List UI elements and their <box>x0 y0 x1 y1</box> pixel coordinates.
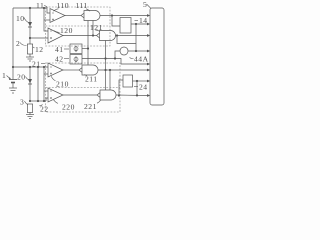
wire left rail <box>12 8 14 80</box>
node circle feed tap <box>114 57 116 59</box>
node divider mid top <box>29 37 31 39</box>
node gate121 out <box>116 34 118 36</box>
wire src42 out <box>82 59 149 65</box>
diode D10 <box>28 22 32 27</box>
wire op210 out <box>63 69 79 71</box>
resistor R3 <box>27 104 32 113</box>
wire gate121 input fork <box>97 33 100 38</box>
node merge y95 <box>136 94 138 96</box>
wire block24 branch down <box>136 81 138 95</box>
gate 221 <box>100 90 116 100</box>
wire gate221 input fork <box>97 93 100 98</box>
wire mid rail <box>13 66 48 68</box>
wire gate121 branch down <box>117 36 136 44</box>
node block14 out <box>135 23 137 25</box>
svg-text:42: 42 <box>55 55 64 64</box>
svg-text:1: 1 <box>2 71 6 80</box>
op-amp 210 <box>48 63 63 77</box>
node divider mid bottom <box>29 100 31 102</box>
block 24 <box>123 75 133 87</box>
wire op210 plus stub <box>44 73 48 75</box>
arrow into block5 y63 <box>147 63 150 66</box>
pointer 12 <box>33 47 35 48</box>
pointer 24 <box>134 86 138 88</box>
wire up to 44A <box>115 51 120 59</box>
wire to block24 input <box>119 80 123 96</box>
svg-text:44A: 44A <box>134 55 149 64</box>
pointer 22 <box>40 105 43 106</box>
node mid rail tap B <box>37 66 39 68</box>
arrow into block5 y70 <box>147 69 150 72</box>
op-amp 120 <box>48 28 63 43</box>
gate 111 <box>84 11 100 21</box>
pointer 220 <box>54 100 59 104</box>
svg-text:121: 121 <box>90 23 103 32</box>
wire op120 out <box>63 35 97 37</box>
wire op220 minus stub <box>44 90 48 92</box>
pointer 2 <box>20 43 27 46</box>
labels <box>2 0 149 114</box>
pointer 211 <box>85 74 88 75</box>
wire op110 plus stub <box>44 19 50 21</box>
svg-text:22: 22 <box>40 105 49 114</box>
current source 42 box <box>70 55 82 65</box>
wire block14 out <box>131 23 149 25</box>
pointer 3 <box>25 101 29 105</box>
wire to op120 plus <box>30 37 48 39</box>
node src41 tap <box>87 47 89 49</box>
resistor R12 <box>27 44 32 54</box>
block 5 <box>150 8 164 105</box>
pointer 10 <box>24 18 29 23</box>
wire gate121 out <box>116 35 149 37</box>
node gate211 out tap2 <box>109 69 111 71</box>
pointer 120 <box>54 31 60 33</box>
pointer 41 <box>64 48 69 50</box>
pointer 210 <box>51 76 55 80</box>
pointer 121 <box>95 30 100 32</box>
node mid rail tap C <box>43 66 45 68</box>
wire gate221 out <box>116 94 149 97</box>
arrow into block5 y24 <box>147 23 150 26</box>
op-amp 110 <box>50 9 65 23</box>
wire top rail <box>13 8 50 13</box>
wire block24 out <box>133 80 149 82</box>
wire op220 out <box>63 94 97 96</box>
wire gate121 underside <box>105 41 107 91</box>
pointer 5 <box>147 4 152 9</box>
arrow into block5 y95 <box>147 94 150 97</box>
wire gate221 topside <box>109 70 111 90</box>
op-amp 220 <box>48 88 63 102</box>
wire plain vertical x38 <box>37 67 39 101</box>
node src42 tap <box>104 57 106 59</box>
svg-text:3: 3 <box>20 98 24 107</box>
wire gate111 input fork <box>81 13 84 18</box>
arrow into block5 y15 <box>147 14 150 17</box>
pointer 1 <box>7 76 11 80</box>
svg-text:210: 210 <box>56 80 69 89</box>
ground under battery <box>9 87 17 89</box>
svg-text:10: 10 <box>16 14 25 23</box>
svg-text:5: 5 <box>143 0 147 9</box>
label pointers <box>7 4 152 106</box>
node gate211 out tap <box>104 69 106 71</box>
svg-text:20: 20 <box>17 73 26 82</box>
wire gate111 out <box>100 15 149 17</box>
arrow into block5 y35 <box>147 34 150 37</box>
svg-text:111: 111 <box>76 1 88 10</box>
pointer 221 <box>97 100 101 103</box>
wire gate111 underside left <box>87 21 89 66</box>
svg-text:11: 11 <box>36 1 44 10</box>
svg-text:12: 12 <box>35 45 44 54</box>
circle 44A <box>120 47 128 55</box>
arrow into block5 y51 <box>147 50 150 53</box>
wire op220 plus stub <box>46 98 48 101</box>
wire op110 out <box>65 15 81 17</box>
svg-text:2: 2 <box>16 39 20 48</box>
pointer 44A <box>130 58 134 59</box>
diode D20 chain wire <box>29 67 31 101</box>
svg-text:24: 24 <box>139 83 148 92</box>
arrow into block5 y82 <box>147 80 150 83</box>
ground under R3 <box>29 113 31 115</box>
node op120 out tap <box>92 34 94 36</box>
block 14 <box>120 18 131 34</box>
gate 211 <box>82 65 98 75</box>
pointer 21 <box>41 63 45 65</box>
svg-text:211: 211 <box>85 75 98 84</box>
wire src41 out <box>82 48 88 50</box>
wire gate211 input fork <box>79 68 82 73</box>
wire gate111 underside right <box>92 21 94 36</box>
diode D20 <box>28 79 32 84</box>
svg-text:120: 120 <box>60 26 73 35</box>
pointer 11 <box>44 6 48 8</box>
svg-text:110: 110 <box>57 1 70 10</box>
wire block14 branch down <box>135 24 137 51</box>
node top rail tap A <box>29 7 31 9</box>
pointer 42 <box>64 58 69 60</box>
pointer 111 <box>86 9 90 11</box>
wire gate211 out <box>98 69 149 71</box>
wire divider branch x44 top <box>44 8 48 31</box>
svg-text:41: 41 <box>55 45 64 54</box>
svg-text:21: 21 <box>32 60 41 69</box>
pointer 110 <box>54 9 59 11</box>
diode D10 chain wire <box>29 8 31 44</box>
pointer 14 <box>135 20 139 22</box>
gate 121 <box>100 31 116 41</box>
pointer 20 <box>26 77 30 80</box>
wire branch x44 lower <box>43 67 45 101</box>
node gate111 out <box>111 14 113 16</box>
battery 1 <box>9 79 17 81</box>
wire bottom node <box>30 100 46 102</box>
node block24 out <box>136 80 138 82</box>
current source 41 box <box>70 44 82 54</box>
dashed box 21 <box>46 63 121 112</box>
ground under R12 <box>29 54 31 57</box>
wire to block14 input <box>112 16 120 27</box>
svg-text:220: 220 <box>62 103 75 112</box>
node top rail tap B <box>43 7 45 9</box>
node gate221 out <box>118 94 120 96</box>
node merge y51 <box>135 50 137 52</box>
dashed box 11 <box>46 7 121 112</box>
wire 44A out <box>128 50 149 52</box>
node mid rail tap A <box>29 66 31 68</box>
svg-text:14: 14 <box>139 16 148 25</box>
svg-text:221: 221 <box>84 102 97 111</box>
node mid rail left <box>12 66 14 68</box>
